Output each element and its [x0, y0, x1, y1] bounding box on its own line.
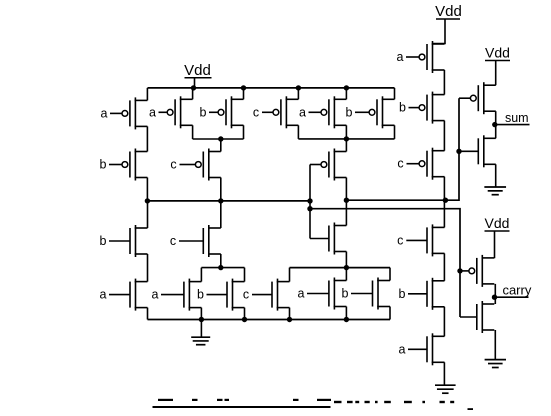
svg-text:Vdd: Vdd — [435, 3, 462, 20]
ground symbol main — [191, 337, 210, 345]
wire P19 source riser to carry node — [494, 284, 496, 297]
wire P7 drain riser to Vdd rail — [345, 88, 347, 99]
svg-text:Vdd: Vdd — [485, 215, 510, 231]
wire ground rail — [148, 319, 391, 321]
wire sum inverter Vdd stem — [495, 61, 497, 86]
svg-text:a: a — [298, 287, 305, 301]
wire N20 source to ground — [494, 330, 496, 360]
wire N20 gate from carry-bar — [460, 316, 477, 318]
pmos transistor P5 gate b — [100, 149, 148, 181]
wire P8 drain riser to Vdd rail — [394, 88, 396, 99]
wire P2||P3 source rail — [193, 138, 244, 140]
svg-text:a: a — [397, 50, 404, 64]
svg-text:c: c — [253, 105, 259, 119]
wire P6 source riser — [297, 125, 299, 139]
junction sum inverter NMOS gate tap — [456, 149, 461, 154]
wire N16 source to ground — [443, 362, 445, 385]
wire N23 drain riser to carry-bar — [220, 201, 222, 228]
ground symbol carry inverter — [485, 360, 506, 368]
wire N10 source riser — [345, 252, 347, 268]
junction node carry output — [492, 295, 497, 300]
pmos transistor P2 gate a — [149, 96, 193, 128]
wire P7 source riser — [345, 125, 347, 139]
junction ground rail at N27 — [344, 317, 349, 322]
wire P6 drain riser to Vdd rail — [297, 88, 299, 99]
svg-text:sum: sum — [505, 111, 529, 125]
svg-text:c: c — [397, 233, 403, 247]
svg-text:b: b — [200, 105, 207, 119]
junction node P2/P3 sources to P4 drain — [218, 136, 223, 141]
wire P9 source riser to sum-bar node — [345, 178, 347, 201]
Vdd label sum inverter — [485, 45, 510, 61]
sum label — [505, 111, 529, 125]
svg-text:c: c — [243, 288, 249, 302]
junction P6 drain on Vdd rail — [296, 85, 301, 90]
svg-text:Vdd: Vdd — [184, 62, 211, 79]
wire N24||N25 drain rail — [201, 267, 244, 269]
wire N25 drain riser — [244, 268, 246, 282]
svg-text:b: b — [399, 101, 406, 115]
wire N18 gate from sum-bar — [459, 150, 478, 152]
svg-text:a: a — [399, 342, 406, 356]
svg-text:b: b — [100, 234, 107, 248]
wire N26 source riser to ground rail — [289, 308, 291, 320]
ground symbol stack — [435, 385, 456, 393]
nmos transistor N14 gate c — [397, 224, 444, 256]
nmos transistor N27 gate a — [298, 278, 347, 310]
caption underline — [153, 406, 331, 408]
caption text fragments — [158, 399, 454, 403]
wire N18 drain riser to sum node — [495, 125, 497, 139]
wire N10 gate from carry-bar vertical — [310, 238, 329, 240]
pmos transistor P1 gate a — [101, 97, 148, 129]
pmos transistor P13 gate c — [397, 148, 444, 180]
wire N21 drain riser to carry-bar — [147, 201, 149, 228]
wire P12 source to P13 drain — [443, 121, 445, 151]
svg-text:b: b — [399, 287, 406, 301]
pmos transistor P11 gate a — [397, 41, 445, 73]
wire carry-bar node line — [147, 200, 310, 202]
wire N15 source to N16 drain — [443, 307, 445, 337]
junction Vdd stem / P2 drain — [191, 85, 196, 90]
pmos transistor P17 gate — [470, 82, 495, 114]
junction N10 source on parallel NMOS rail — [344, 265, 349, 270]
wire Vdd top rail — [148, 87, 395, 89]
wire N27 drain riser — [345, 268, 347, 281]
wire N28 drain riser — [389, 268, 391, 281]
pmos transistor P6 gate c — [253, 96, 299, 128]
junction sum-bar at series-stack riser — [443, 198, 448, 203]
wire N28 source riser to ground rail — [389, 307, 391, 320]
wire carry output — [495, 296, 528, 298]
wire N26 drain riser — [289, 268, 291, 282]
junction node sum output — [492, 122, 497, 127]
wire P4 source riser to carry-bar node — [220, 178, 222, 201]
Vdd label main — [184, 62, 211, 79]
wire P13 source riser to sum-bar — [443, 177, 445, 201]
junction carry-bar at P5/N21 risers — [145, 198, 150, 203]
wire P6/P7/P8 common source rail — [298, 138, 394, 140]
nmos transistor N26 gate c — [243, 279, 290, 311]
nmos transistor N25 gate b — [197, 279, 244, 311]
wire P8 source riser — [394, 125, 396, 139]
wire N18 source to ground — [495, 164, 497, 187]
wire P5 source riser to carry-bar node — [146, 178, 148, 201]
nmos transistor N23 gate c — [170, 225, 221, 257]
svg-text:Vdd: Vdd — [485, 45, 510, 61]
wire P9 drain riser — [345, 139, 347, 152]
svg-text:a: a — [149, 105, 156, 119]
wire N14 source to N15 drain — [443, 253, 445, 280]
wire P1 drain riser to Vdd rail — [146, 88, 148, 101]
wire N24 drain riser — [200, 268, 202, 282]
wire carry-bar to carry inverter — [310, 209, 460, 317]
nmos transistor N10 gate — [329, 223, 347, 255]
wire sum-bar node line — [346, 98, 459, 200]
nmos transistor N18 gate — [478, 135, 496, 167]
svg-text:c: c — [170, 158, 176, 172]
svg-text:b: b — [346, 105, 353, 119]
svg-text:b: b — [342, 287, 349, 301]
junction ground rail at N26 — [287, 317, 292, 322]
wire N24 source riser to ground rail — [200, 308, 202, 320]
wire P3 source riser — [243, 125, 245, 139]
svg-text:c: c — [170, 234, 176, 248]
pmos transistor P12 gate b — [399, 92, 444, 124]
junction parallel PMOS rail to P9 drain — [344, 136, 349, 141]
wire P4 drain riser — [220, 139, 222, 152]
junction carry-bar line to gate vertical — [307, 198, 312, 203]
svg-text:b: b — [197, 288, 204, 302]
wire P17 gate from sum-bar — [459, 97, 470, 99]
wire P9 gate from carry-bar vertical — [310, 164, 321, 166]
wire P3 drain riser to Vdd rail — [243, 88, 245, 99]
carry label — [502, 283, 531, 298]
junction N23 source on N24/N25 rail — [218, 265, 223, 270]
wire N26/N27/N28 common drain rail — [290, 267, 391, 269]
wire P1 source to P5 drain — [146, 126, 148, 151]
wire P11 source to P12 drain — [443, 70, 445, 95]
junction carry-bar jog — [307, 206, 312, 211]
svg-text:a: a — [299, 105, 306, 119]
pmos transistor P19 gate — [469, 255, 494, 287]
ground symbol sum inverter — [484, 187, 506, 195]
nmos transistor N16 gate a — [399, 333, 445, 365]
wire carry inverter Vdd stem — [494, 231, 496, 258]
nmos transistor N28 gate b — [342, 278, 390, 310]
svg-text:c: c — [397, 157, 403, 171]
pmos transistor P8 gate b — [346, 96, 395, 128]
wire P2 source riser — [192, 125, 194, 139]
junction carry-bar at P4/N23 risers — [218, 198, 223, 203]
wire N20 drain riser to carry node — [494, 297, 496, 304]
Vdd label stack — [435, 3, 462, 20]
junction P7 drain on Vdd rail — [344, 85, 349, 90]
junction ground rail at N25 — [242, 317, 247, 322]
svg-text:b: b — [100, 158, 107, 172]
wire N27 source riser to ground rail — [345, 307, 347, 320]
nmos transistor N24 gate a — [152, 279, 202, 311]
svg-text:a: a — [100, 288, 107, 302]
wire P2 drain riser to Vdd rail — [192, 88, 194, 99]
wire N10 drain riser to sum-bar node — [345, 200, 347, 225]
svg-text:a: a — [101, 106, 108, 120]
wire Vdd stem to top rail — [194, 78, 196, 88]
nmos transistor N15 gate b — [399, 278, 445, 310]
junction ground rail at N24 — [199, 317, 204, 322]
pmos transistor P9 gate — [321, 149, 346, 181]
nmos transistor N21 gate b — [100, 225, 148, 257]
junction node sum-bar at P9/N10 — [344, 198, 349, 203]
wire P19 gate from carry-bar — [460, 270, 469, 272]
wire N22 source riser to ground rail — [147, 308, 149, 320]
wire N21 source to N22 drain — [147, 254, 149, 282]
wire N25 source riser to ground rail — [244, 308, 246, 320]
pmos transistor P7 gate a — [299, 96, 346, 128]
wire carry-bar gate vertical — [309, 165, 311, 239]
wire ground stem — [200, 320, 202, 338]
nmos transistor N20 gate — [477, 301, 495, 333]
wire N23 source riser — [220, 254, 222, 268]
wire sum output — [496, 124, 530, 126]
svg-text:carry: carry — [502, 283, 531, 298]
pmos transistor P4 gate c — [170, 149, 220, 181]
svg-text:a: a — [152, 288, 159, 302]
Vdd label carry inverter — [485, 215, 510, 231]
wire P17 source riser to sum node — [495, 111, 497, 124]
caption fragment far right — [468, 408, 474, 410]
junction P3 drain on Vdd rail — [241, 85, 246, 90]
pmos transistor P3 gate b — [200, 96, 244, 128]
wire stack Vdd stem — [433, 19, 446, 44]
wire N14 drain riser to sum-bar — [443, 200, 445, 227]
junction carry-bar to P19 gate — [457, 268, 462, 273]
nmos transistor N22 gate a — [100, 279, 148, 311]
